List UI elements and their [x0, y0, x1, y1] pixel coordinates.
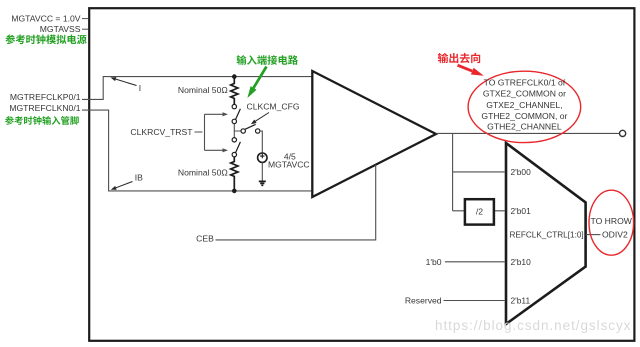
note: reference clock input pins (green) [5, 116, 79, 125]
svg-text:2'b10: 2'b10 [511, 257, 532, 267]
node I annotation [111, 77, 142, 93]
wire MGTREFCLKN entry + bottom rail IB [82, 110, 313, 191]
svg-text:TO HROW: TO HROW [591, 216, 633, 226]
resistor R2 Nominal 50 ohm (bottom) [178, 157, 238, 191]
note: output destination (red) [438, 53, 480, 63]
label 1b0 with wire [426, 257, 505, 267]
svg-text:GTXE2_CHANNEL,: GTXE2_CHANNEL, [486, 100, 562, 110]
junction bottom rail [232, 189, 237, 194]
voltage source V1 4/5 MGTAVCC [258, 152, 310, 170]
wire mux output ODIV2 [586, 234, 601, 236]
svg-text:MGTREFCLKP0/1: MGTREFCLKP0/1 [10, 92, 81, 102]
ground [259, 181, 266, 185]
switch S1 (CLKRCV_TRST top) [232, 104, 240, 123]
op-amp buffer U1 [312, 71, 436, 197]
svg-text:CLKCM_CFG: CLKCM_CFG [247, 101, 300, 111]
red ellipse: destination note [468, 71, 581, 142]
svg-text:/2: /2 [476, 206, 483, 216]
label CLKRCV_TRST with bracket arrows [130, 112, 228, 152]
red arrow to ellipse [458, 65, 473, 71]
svg-text:2'b01: 2'b01 [511, 206, 532, 216]
green arrow to termination [254, 67, 267, 88]
svg-text:Reserved: Reserved [405, 296, 442, 306]
svg-text:MGTAVSS: MGTAVSS [40, 24, 81, 34]
label CEB with wire to buffer enable [196, 165, 376, 244]
svg-text:MGTAVCC = 1.0V: MGTAVCC = 1.0V [11, 14, 80, 24]
svg-text:Nominal 50Ω: Nominal 50Ω [178, 85, 228, 95]
wire output branch down [452, 133, 454, 210]
svg-text:Nominal 50Ω: Nominal 50Ω [178, 168, 228, 178]
svg-text:I: I [139, 83, 141, 93]
red ellipse around ODIV2 [589, 190, 634, 255]
note: reference clock analog power (green) [5, 34, 86, 44]
svg-text:GTHE2_COMMON, or: GTHE2_COMMON, or [481, 111, 567, 121]
svg-text:ODIV2: ODIV2 [602, 230, 628, 240]
wire to mux input 2b00 [453, 171, 505, 173]
svg-text:2'b11: 2'b11 [511, 296, 531, 306]
wire buffer output to terminal O [436, 132, 620, 134]
svg-text:GTHE2_CHANNEL: GTHE2_CHANNEL [487, 122, 562, 132]
switch S2 (CLKRCV_TRST bottom) [232, 138, 240, 157]
svg-text:CEB: CEB [196, 233, 214, 243]
svg-text:IB: IB [135, 172, 143, 182]
svg-text:CLKRCV_TRST: CLKRCV_TRST [130, 127, 193, 137]
label MGTAVSS [40, 24, 88, 34]
terminal O [620, 130, 626, 136]
divider /2 box [465, 199, 494, 224]
svg-text:2'b00: 2'b00 [511, 167, 532, 177]
svg-text:TO GTREFCLK0/1 of: TO GTREFCLK0/1 of [484, 78, 566, 88]
svg-text:MGTREFCLKN0/1: MGTREFCLKN0/1 [9, 103, 80, 113]
svg-text:REFCLK_CTRL[1:0]: REFCLK_CTRL[1:0] [510, 231, 584, 240]
note: input termination circuit (green) [237, 55, 298, 65]
label MGTAVCC = 1.0V [11, 14, 88, 24]
svg-text:1'b0: 1'b0 [426, 257, 442, 267]
svg-text:MGTAVCC: MGTAVCC [268, 160, 310, 170]
junction top rail [232, 74, 237, 79]
note TO GTREFCLK0/1 destinations [481, 78, 567, 132]
mux U2 REFCLK_CTRL [506, 143, 586, 324]
wire MGTREFCLKP entry + top rail I [82, 77, 313, 100]
resistor R1 Nominal 50 ohm (top) [178, 77, 238, 105]
wire switch S3 to source [260, 131, 262, 153]
label Reserved with wire [405, 296, 505, 306]
svg-text:GTXE2_COMMON or: GTXE2_COMMON or [483, 89, 566, 99]
wire into divider [453, 210, 505, 212]
svg-text:https://blog.csdn.net/gslscyx: https://blog.csdn.net/gslscyx [435, 318, 631, 333]
node IB annotation [111, 172, 143, 190]
wire source to ground [261, 162, 263, 181]
wire between switches with tap [234, 124, 241, 138]
label CLKCM_CFG with arrow [247, 101, 300, 124]
switch S3 CLKCM_CFG [241, 124, 260, 133]
